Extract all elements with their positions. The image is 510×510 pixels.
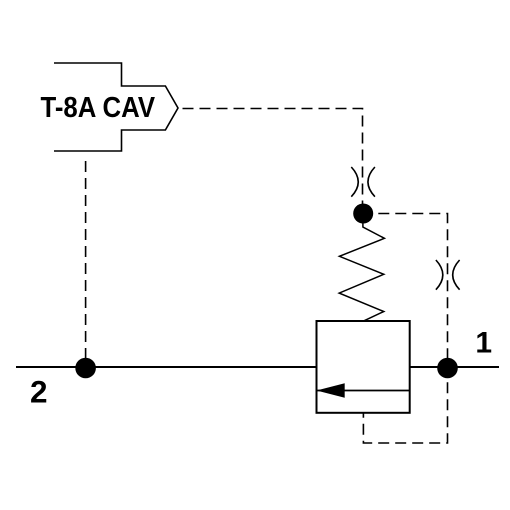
cavity callout flag outline: [54, 63, 178, 151]
svg-text:2: 2: [30, 373, 48, 409]
wire: dashed pilot line from callout tip right and down to orifice: [183, 109, 363, 205]
wire: port 1 line (right): [410, 366, 499, 368]
orifice O1 (restriction on pilot line): [351, 167, 375, 197]
relief arrow head (points left to port 2): [317, 383, 345, 398]
junction node A: [353, 204, 373, 224]
orifice O2 (restriction on right pilot branch): [436, 260, 460, 290]
svg-text:T-8A CAV: T-8A CAV: [41, 92, 156, 124]
wire: dashed line from callout bottom to port 2 node: [85, 155, 87, 367]
svg-text:1: 1: [475, 327, 492, 360]
node on port 1: [437, 358, 458, 379]
wire: port 2 line (left): [16, 366, 317, 368]
wire: dashed pilot branch right, down and around to valve bottom: [363, 214, 447, 444]
node on port 2: [75, 358, 96, 379]
valve body U1: [317, 321, 410, 413]
relief flow line inside valve: [317, 390, 410, 392]
spring: [339, 214, 384, 321]
